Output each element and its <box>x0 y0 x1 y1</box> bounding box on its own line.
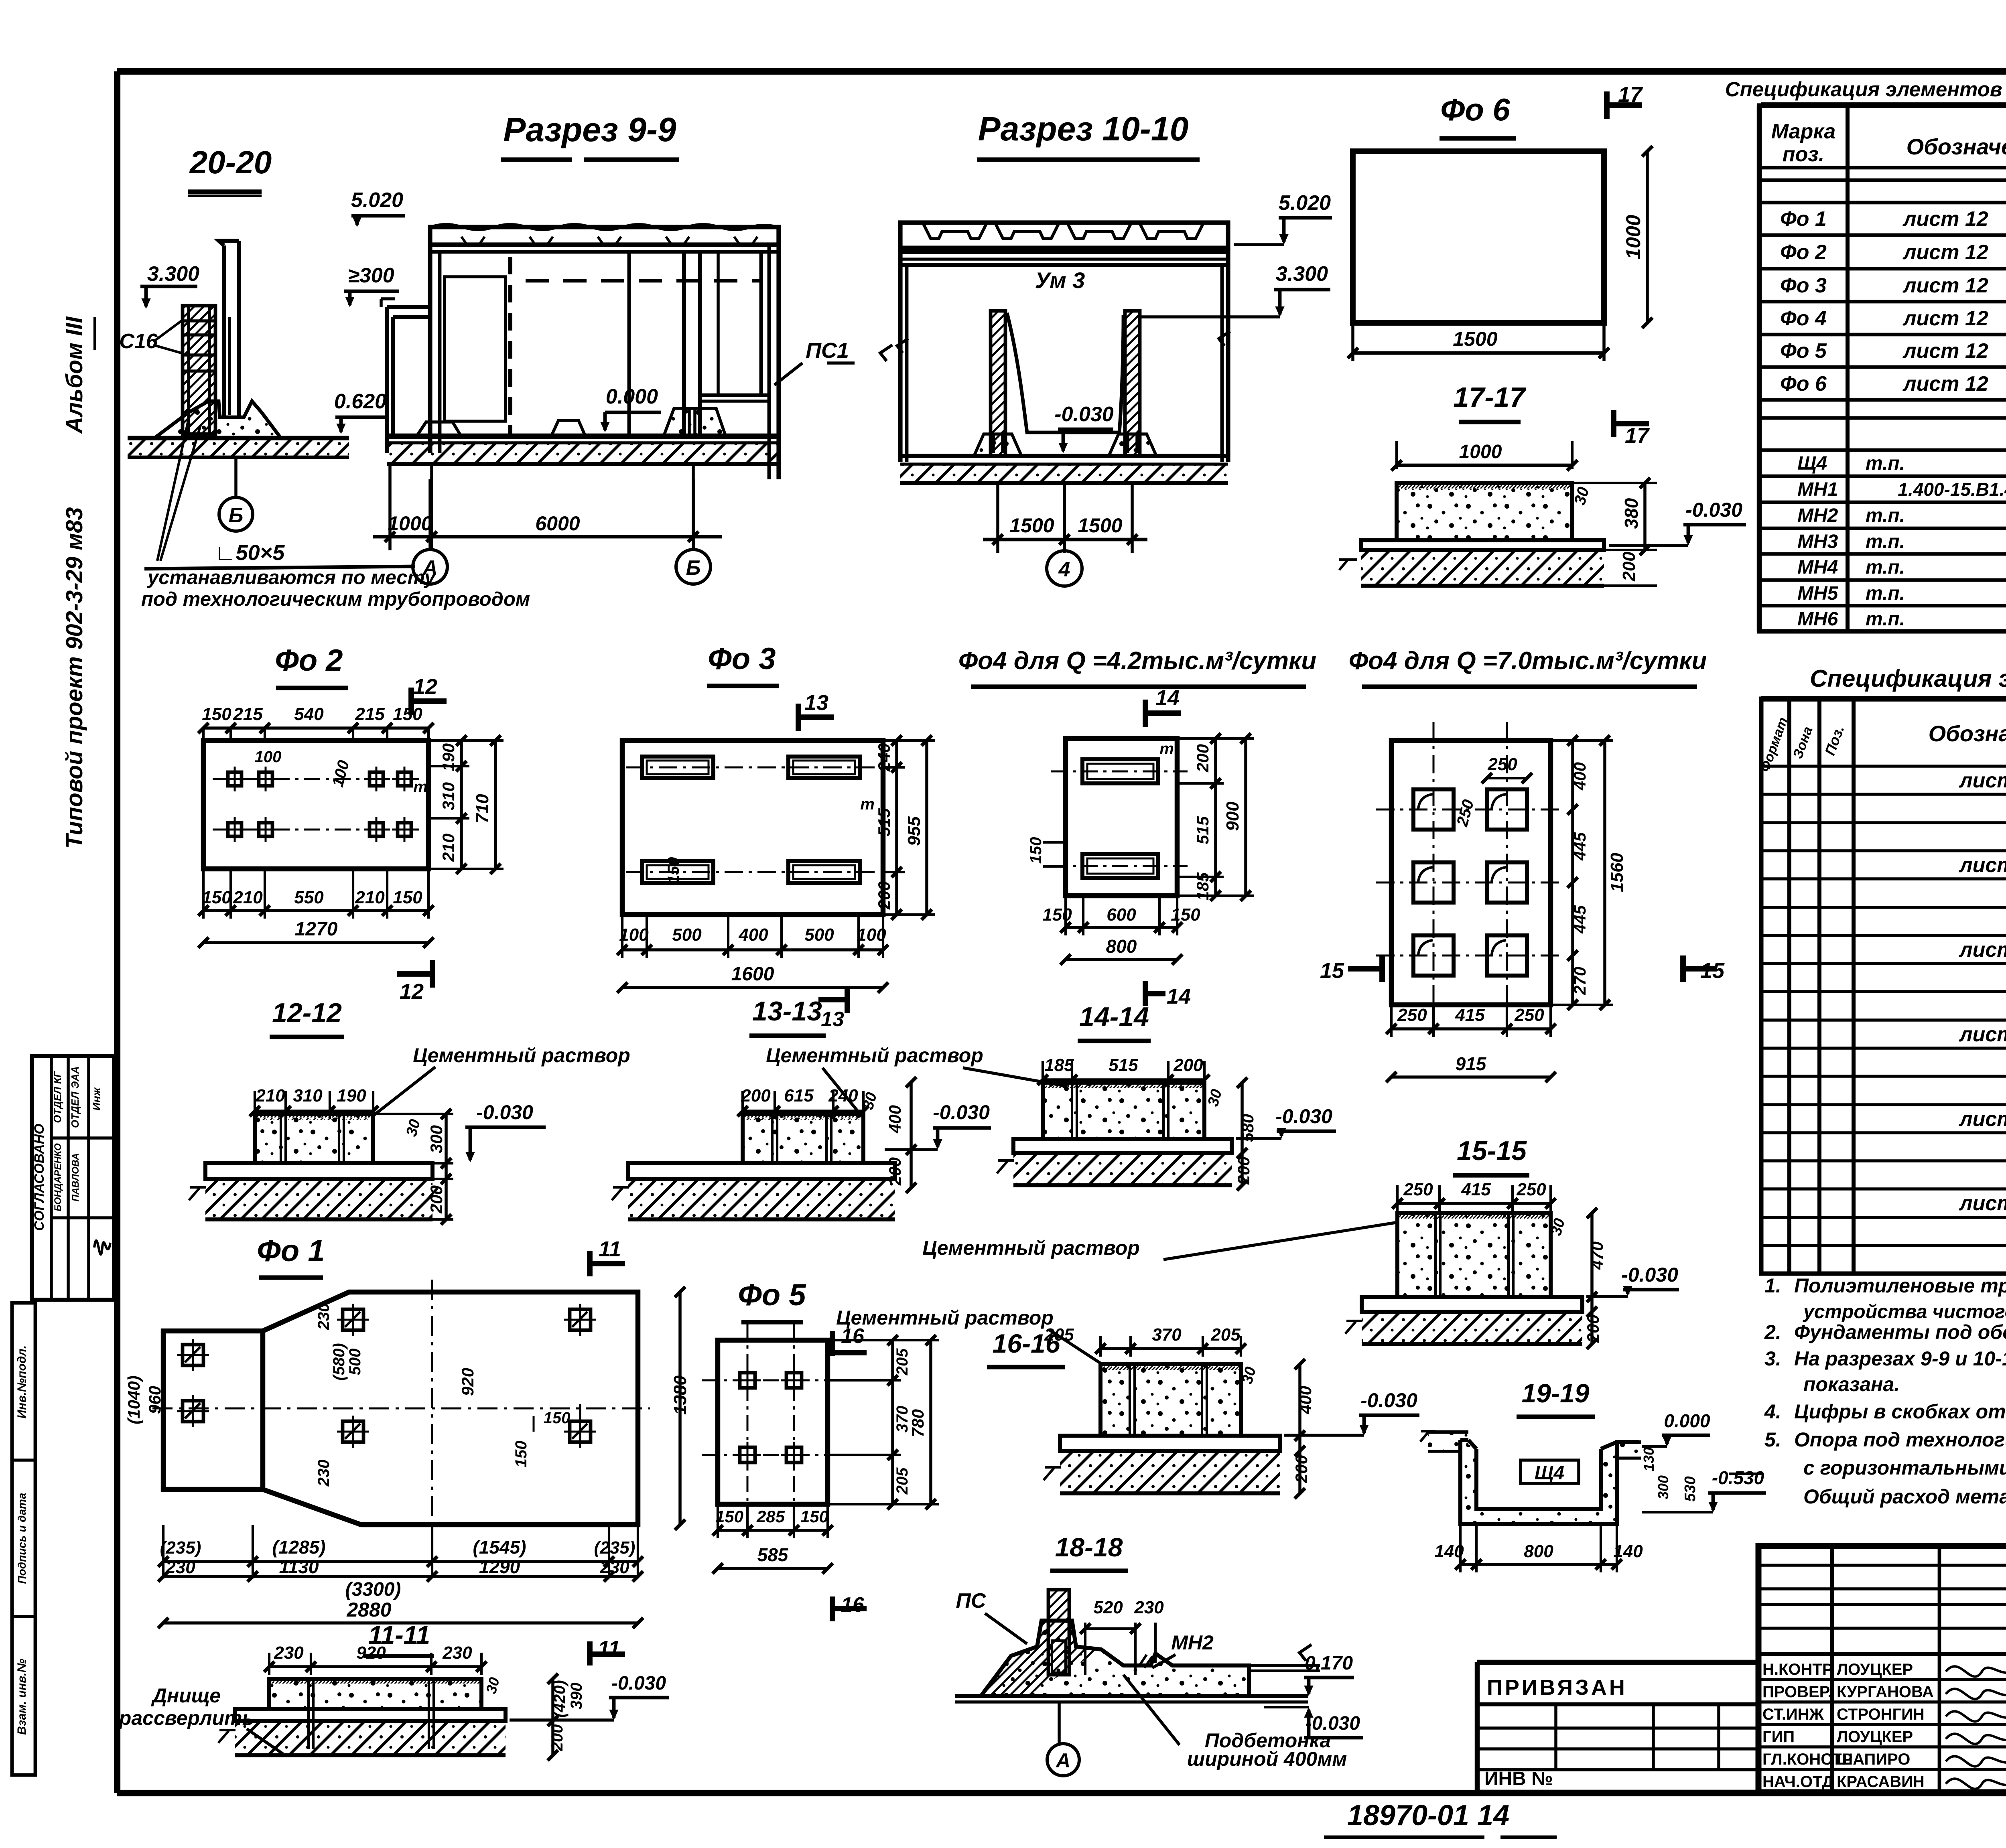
svg-text:190: 190 <box>337 1086 366 1106</box>
svg-text:т: т <box>860 795 875 813</box>
svg-text:960: 960 <box>145 1386 164 1414</box>
svg-text:-0.030: -0.030 <box>933 1101 990 1124</box>
svg-text:т.п.: т.п. <box>1866 609 1905 630</box>
svg-text:230: 230 <box>1134 1598 1164 1617</box>
svg-text:ОТДЕЛ ЭАА: ОТДЕЛ ЭАА <box>69 1066 81 1128</box>
svg-text:200: 200 <box>1173 1055 1203 1075</box>
svg-text:370: 370 <box>1152 1325 1182 1345</box>
svg-text:-0.030: -0.030 <box>1275 1105 1332 1128</box>
svg-text:550: 550 <box>294 888 324 907</box>
svg-text:150: 150 <box>715 1507 743 1526</box>
svg-text:230: 230 <box>315 1460 333 1487</box>
svg-text:13-13: 13-13 <box>752 996 822 1026</box>
svg-text:Инж: Инж <box>90 1087 103 1111</box>
svg-text:210: 210 <box>255 1086 285 1106</box>
svg-text:≥300: ≥300 <box>348 264 394 287</box>
svg-text:230: 230 <box>315 1303 333 1331</box>
svg-text:лист 12: лист 12 <box>1958 854 2006 877</box>
svg-text:210: 210 <box>355 888 385 907</box>
svg-text:Полиэтиленовые трубы заложить: Полиэтиленовые трубы заложить по верху м… <box>1794 1274 2006 1297</box>
svg-text:150: 150 <box>202 888 231 907</box>
svg-text:1270: 1270 <box>295 919 338 940</box>
svg-text:500: 500 <box>672 925 702 945</box>
svg-text:1130: 1130 <box>279 1556 319 1577</box>
svg-text:под технологическим трубопрово: под технологическим трубопроводом <box>141 588 530 610</box>
svg-text:210: 210 <box>233 888 263 907</box>
svg-text:600: 600 <box>1107 905 1136 925</box>
svg-text:285: 285 <box>756 1507 785 1526</box>
svg-text:с горизонтальными балками из: с горизонтальными балками из L50×5. <box>1803 1456 2006 1479</box>
svg-text:1600: 1600 <box>731 964 774 985</box>
svg-text:515: 515 <box>1109 1055 1138 1075</box>
svg-text:ПАВЛОВА: ПАВЛОВА <box>70 1153 81 1202</box>
svg-text:6000: 6000 <box>535 512 580 535</box>
svg-text:150: 150 <box>202 704 231 724</box>
svg-text:Общий расход металла для устро: Общий расход металла для устройства опор… <box>1803 1485 2006 1508</box>
svg-text:150: 150 <box>544 1409 571 1427</box>
svg-text:200: 200 <box>741 1086 771 1106</box>
svg-text:185: 185 <box>1044 1055 1074 1075</box>
svg-text:205: 205 <box>893 1348 911 1375</box>
svg-text:БОНДАРЕНКО: БОНДАРЕНКО <box>53 1143 63 1211</box>
svg-text:ПРОВЕР.: ПРОВЕР. <box>1762 1683 1832 1701</box>
svg-text:200: 200 <box>427 1185 446 1214</box>
svg-text:4.: 4. <box>1764 1400 1781 1423</box>
svg-text:поз.: поз. <box>1783 143 1825 166</box>
svg-text:На разрезах 9-9 и 10-10 утепля: На разрезах 9-9 и 10-10 утепляющая кирпи… <box>1794 1347 2006 1370</box>
svg-text:5.020: 5.020 <box>351 189 403 212</box>
svg-text:200: 200 <box>885 1157 904 1186</box>
svg-text:ПС1: ПС1 <box>806 339 849 363</box>
svg-text:Фо4 для Q =4.2тыс.м³/сутки: Фо4 для Q =4.2тыс.м³/сутки <box>958 647 1317 675</box>
svg-text:5.: 5. <box>1764 1428 1781 1451</box>
svg-text:Фо 1: Фо 1 <box>257 1234 325 1268</box>
svg-text:Фо4 для Q =7.0тыс.м³/сутки: Фо4 для Q =7.0тыс.м³/сутки <box>1349 647 1707 675</box>
svg-text:1290: 1290 <box>479 1556 520 1577</box>
svg-text:5.020: 5.020 <box>1279 191 1331 215</box>
svg-text:Щ4: Щ4 <box>1535 1463 1564 1484</box>
svg-text:0.000: 0.000 <box>606 385 658 408</box>
svg-text:Фо 4: Фо 4 <box>1780 307 1827 330</box>
svg-text:215: 215 <box>233 704 263 724</box>
svg-text:150: 150 <box>800 1507 828 1526</box>
svg-text:4: 4 <box>1058 558 1070 581</box>
svg-text:150: 150 <box>512 1441 530 1468</box>
svg-text:(3300): (3300) <box>345 1579 401 1600</box>
svg-text:МН4: МН4 <box>1797 557 1838 578</box>
svg-text:11: 11 <box>598 1637 620 1661</box>
svg-text:С16: С16 <box>119 330 158 353</box>
svg-text:ГИП: ГИП <box>1762 1728 1795 1746</box>
svg-text:показана.: показана. <box>1803 1373 1900 1396</box>
svg-text:400: 400 <box>1570 762 1589 791</box>
svg-text:1500: 1500 <box>1078 514 1122 537</box>
svg-text:390: 390 <box>568 1683 585 1710</box>
svg-text:ЛОУЦКЕР: ЛОУЦКЕР <box>1837 1728 1913 1746</box>
svg-text:Фо 6: Фо 6 <box>1440 92 1510 127</box>
svg-text:устройства чистого пола, высту: устройства чистого пола, выступающие над… <box>1803 1301 2006 1323</box>
svg-text:250: 250 <box>1397 1005 1427 1025</box>
svg-text:250: 250 <box>1514 1005 1544 1025</box>
svg-text:устанавливаются по месту: устанавливаются по месту <box>146 567 437 588</box>
svg-text:Цифры в скобках относятся к пр: Цифры в скобках относятся к производител… <box>1794 1400 2006 1423</box>
svg-text:лист 12: лист 12 <box>1902 207 1988 231</box>
svg-text:200: 200 <box>1193 744 1212 773</box>
svg-text:150: 150 <box>665 857 682 884</box>
svg-text:Б: Б <box>686 556 701 580</box>
svg-text:Б: Б <box>229 504 244 527</box>
svg-text:МН6: МН6 <box>1797 609 1838 630</box>
svg-text:1.400-15.В1.430-01: 1.400-15.В1.430-01 <box>1898 479 2006 500</box>
svg-text:КРАСАВИН: КРАСАВИН <box>1837 1773 1925 1791</box>
svg-text:1000: 1000 <box>1459 441 1502 463</box>
svg-text:915: 915 <box>1456 1053 1487 1074</box>
svg-text:400: 400 <box>738 925 768 945</box>
svg-text:лист 12: лист 12 <box>1958 1108 2006 1131</box>
svg-text:Фо 3: Фо 3 <box>708 642 776 676</box>
svg-text:Фо 5: Фо 5 <box>1780 339 1827 363</box>
svg-text:т.п.: т.п. <box>1866 453 1905 474</box>
svg-text:МН5: МН5 <box>1797 583 1839 604</box>
svg-text:Обозначение: Обозначение <box>1929 721 2006 746</box>
svg-text:Фо 1: Фо 1 <box>1780 207 1827 231</box>
svg-text:17: 17 <box>1618 83 1643 107</box>
svg-text:380: 380 <box>1621 498 1642 529</box>
svg-text:310: 310 <box>439 782 458 810</box>
svg-text:1000: 1000 <box>1622 215 1645 259</box>
svg-text:140: 140 <box>1434 1542 1464 1561</box>
svg-text:3.300: 3.300 <box>147 262 199 286</box>
svg-text:ШАПИРО: ШАПИРО <box>1837 1751 1910 1768</box>
svg-text:415: 415 <box>1461 1180 1491 1199</box>
svg-text:200: 200 <box>875 881 893 910</box>
svg-text:ПРИВЯЗАН: ПРИВЯЗАН <box>1487 1676 1627 1700</box>
svg-text:14: 14 <box>1155 686 1180 710</box>
svg-text:т: т <box>413 778 428 796</box>
svg-text:240: 240 <box>828 1086 858 1106</box>
svg-text:шириной 400мм: шириной 400мм <box>1187 1748 1347 1770</box>
svg-text:2.: 2. <box>1764 1321 1781 1343</box>
svg-text:лист 12: лист 12 <box>1902 372 1988 396</box>
svg-text:710: 710 <box>473 794 492 824</box>
svg-text:920: 920 <box>356 1643 386 1663</box>
svg-text:т.п.: т.п. <box>1866 531 1905 552</box>
svg-text:МН2: МН2 <box>1797 505 1838 526</box>
svg-text:900: 900 <box>1223 801 1243 831</box>
svg-text:14: 14 <box>1167 984 1191 1008</box>
svg-text:Щ4: Щ4 <box>1797 453 1827 474</box>
svg-text:230: 230 <box>442 1643 472 1663</box>
svg-text:т.п.: т.п. <box>1866 505 1905 526</box>
svg-text:14-14: 14-14 <box>1079 1002 1149 1032</box>
svg-text:19-19: 19-19 <box>1522 1378 1590 1408</box>
svg-text:ПС: ПС <box>956 1589 987 1613</box>
svg-text:300: 300 <box>427 1125 446 1153</box>
svg-text:Фо 2: Фо 2 <box>1780 241 1827 264</box>
svg-text:17: 17 <box>1625 424 1650 448</box>
svg-text:470: 470 <box>1588 1241 1606 1270</box>
svg-text:540: 540 <box>294 704 324 724</box>
svg-text:250: 250 <box>1516 1180 1546 1199</box>
svg-text:лист 12: лист 12 <box>1958 1023 2006 1046</box>
svg-text:16: 16 <box>841 1593 865 1617</box>
svg-text:-0.030: -0.030 <box>611 1673 666 1694</box>
svg-text:515: 515 <box>875 808 893 836</box>
svg-text:2880: 2880 <box>346 1598 391 1621</box>
svg-text:Цементный раствор: Цементный раствор <box>836 1306 1054 1329</box>
svg-text:300: 300 <box>1655 1475 1671 1499</box>
svg-text:А: А <box>422 556 438 580</box>
svg-text:Фундаменты под оборудование бе: Фундаменты под оборудование бетонировать… <box>1794 1321 2006 1343</box>
svg-text:лист 12: лист 12 <box>1902 274 1988 297</box>
svg-text:270: 270 <box>1570 967 1589 995</box>
svg-text:130: 130 <box>1641 1447 1657 1471</box>
svg-text:Разрез 10-10: Разрез 10-10 <box>978 110 1189 148</box>
svg-text:МН3: МН3 <box>1797 531 1838 552</box>
svg-text:т.п.: т.п. <box>1866 583 1905 604</box>
svg-text:17-17: 17-17 <box>1453 381 1526 413</box>
svg-text:-0.030: -0.030 <box>476 1101 533 1124</box>
svg-text:1500: 1500 <box>1009 514 1054 537</box>
svg-text:лист 12: лист 12 <box>1902 339 1988 363</box>
svg-text:(235): (235) <box>594 1538 636 1558</box>
svg-text:Альбом III: Альбом III <box>61 316 87 434</box>
svg-text:1.: 1. <box>1764 1274 1781 1297</box>
svg-text:445: 445 <box>1570 905 1589 934</box>
svg-text:(1040): (1040) <box>124 1375 143 1424</box>
svg-text:515: 515 <box>1193 816 1212 844</box>
svg-text:3.300: 3.300 <box>1276 262 1328 286</box>
svg-text:СОГЛАСОВАНО: СОГЛАСОВАНО <box>32 1124 47 1231</box>
svg-text:150: 150 <box>393 704 422 724</box>
svg-text:12-12: 12-12 <box>272 998 342 1028</box>
svg-text:Фо 3: Фо 3 <box>1780 274 1827 297</box>
svg-text:-0.030: -0.030 <box>1621 1264 1678 1286</box>
svg-text:Ум 3: Ум 3 <box>1035 268 1085 293</box>
svg-text:Фо 2: Фо 2 <box>275 643 343 678</box>
svg-text:500: 500 <box>804 925 834 945</box>
svg-text:СТ.ИНЖ: СТ.ИНЖ <box>1762 1706 1824 1723</box>
svg-text:0.170: 0.170 <box>1305 1653 1353 1674</box>
svg-text:т.п.: т.п. <box>1866 557 1905 578</box>
svg-text:12: 12 <box>413 675 437 699</box>
svg-text:МН2: МН2 <box>1171 1631 1214 1654</box>
svg-text:500: 500 <box>346 1349 364 1375</box>
svg-text:СТРОНГИН: СТРОНГИН <box>1837 1706 1925 1723</box>
svg-text:(1545): (1545) <box>473 1537 526 1558</box>
svg-text:18970-01 14: 18970-01 14 <box>1347 1799 1509 1832</box>
svg-text:13: 13 <box>804 691 828 715</box>
svg-text:205: 205 <box>1044 1325 1074 1345</box>
svg-text:НАЧ.ОТД: НАЧ.ОТД <box>1762 1773 1833 1791</box>
svg-text:0.620: 0.620 <box>334 390 386 413</box>
svg-text:лист 12: лист 12 <box>1958 938 2006 962</box>
svg-text:(580): (580) <box>330 1343 348 1380</box>
svg-text:250: 250 <box>1403 1180 1433 1199</box>
svg-text:рассверлить: рассверлить <box>118 1707 254 1729</box>
svg-text:780: 780 <box>908 1409 927 1437</box>
svg-text:800: 800 <box>1106 936 1137 957</box>
svg-text:А: А <box>1055 1749 1070 1772</box>
svg-text:15-15: 15-15 <box>1457 1136 1527 1166</box>
svg-text:Фо 5: Фо 5 <box>738 1278 806 1312</box>
svg-text:150: 150 <box>1027 837 1045 864</box>
svg-text:лист 12: лист 12 <box>1958 1192 2006 1215</box>
svg-text:230: 230 <box>274 1643 304 1663</box>
svg-text:310: 310 <box>293 1086 323 1106</box>
svg-text:200: 200 <box>1619 552 1639 582</box>
svg-text:520: 520 <box>1093 1598 1123 1617</box>
svg-text:3.: 3. <box>1764 1347 1781 1370</box>
svg-text:-0.530: -0.530 <box>1712 1467 1764 1488</box>
svg-text:150: 150 <box>1042 905 1072 925</box>
svg-text:Типовой проект 902-3-29 м83: Типовой проект 902-3-29 м83 <box>61 507 87 848</box>
svg-text:445: 445 <box>1570 832 1589 861</box>
svg-text:100: 100 <box>619 925 649 945</box>
svg-text:Днище: Днище <box>151 1684 221 1707</box>
svg-text:Опора под технологические труб: Опора под технологические трубопроводы в… <box>1794 1428 2006 1451</box>
svg-text:лист 12: лист 12 <box>1958 769 2006 792</box>
svg-text:210: 210 <box>439 834 458 862</box>
svg-text:лист 12: лист 12 <box>1902 241 1988 264</box>
svg-text:230: 230 <box>599 1558 629 1577</box>
svg-text:150: 150 <box>393 888 422 907</box>
svg-text:-0.030: -0.030 <box>1360 1389 1417 1412</box>
svg-text:Н.КОНТР: Н.КОНТР <box>1762 1661 1833 1678</box>
svg-text:Фо 6: Фо 6 <box>1780 372 1827 396</box>
svg-text:0.000: 0.000 <box>1664 1410 1710 1431</box>
svg-text:-0.030: -0.030 <box>1054 403 1114 426</box>
svg-text:1500: 1500 <box>1453 328 1497 350</box>
svg-text:Подпись и дата: Подпись и дата <box>16 1493 28 1584</box>
svg-text:20-20: 20-20 <box>189 144 272 180</box>
svg-text:т: т <box>1159 740 1174 758</box>
svg-text:ИНВ №: ИНВ № <box>1484 1768 1553 1789</box>
svg-text:лист 12: лист 12 <box>1902 307 1988 330</box>
svg-text:Взам. инв.№: Взам. инв.№ <box>15 1659 28 1735</box>
svg-text:585: 585 <box>757 1544 789 1565</box>
svg-text:18-18: 18-18 <box>1055 1532 1123 1562</box>
svg-text:11: 11 <box>599 1237 621 1261</box>
svg-text:Разрез 9-9: Разрез 9-9 <box>503 111 676 148</box>
svg-text:Цементный раствор: Цементный раствор <box>766 1044 983 1067</box>
svg-text:Обозначение: Обозначение <box>1907 134 2006 159</box>
svg-text:Спецификация элементов монолит: Спецификация элементов монолитной констр… <box>1810 665 2006 692</box>
svg-text:ЛОУЦКЕР: ЛОУЦКЕР <box>1837 1661 1913 1678</box>
svg-text:∟50×5: ∟50×5 <box>215 541 285 565</box>
svg-text:100: 100 <box>255 748 282 766</box>
svg-text:400: 400 <box>885 1105 904 1134</box>
svg-text:Марка: Марка <box>1771 120 1836 143</box>
svg-text:1560: 1560 <box>1607 853 1627 892</box>
svg-text:215: 215 <box>355 704 385 724</box>
svg-text:920: 920 <box>458 1368 477 1396</box>
svg-text:Цементный раствор: Цементный раствор <box>922 1237 1140 1259</box>
svg-text:230: 230 <box>165 1558 195 1577</box>
svg-text:100: 100 <box>857 925 886 945</box>
svg-text:Инв.№подл.: Инв.№подл. <box>15 1345 28 1419</box>
svg-text:1000: 1000 <box>388 512 432 535</box>
svg-text:955: 955 <box>904 816 924 846</box>
svg-text:МН1: МН1 <box>1797 479 1838 500</box>
svg-text:140: 140 <box>1613 1542 1643 1561</box>
svg-text:Спецификация элементов к сх: Спецификация элементов к схеме расположе… <box>1725 78 2006 101</box>
svg-text:615: 615 <box>784 1086 814 1106</box>
svg-text:12: 12 <box>400 980 424 1004</box>
svg-text:250: 250 <box>1487 755 1517 774</box>
svg-text:205: 205 <box>1210 1325 1241 1345</box>
svg-text:КУРГАНОВА: КУРГАНОВА <box>1837 1683 1934 1701</box>
svg-text:ОТДЕЛ КГ: ОТДЕЛ КГ <box>51 1071 63 1123</box>
svg-text:800: 800 <box>1524 1542 1553 1561</box>
svg-text:205: 205 <box>893 1467 911 1495</box>
svg-text:(1285): (1285) <box>272 1537 326 1558</box>
svg-text:415: 415 <box>1455 1005 1485 1025</box>
svg-text:15: 15 <box>1320 959 1344 983</box>
svg-text:Цементный раствор: Цементный раствор <box>413 1044 630 1067</box>
svg-text:530: 530 <box>1682 1476 1699 1501</box>
svg-text:-0.030: -0.030 <box>1685 499 1742 521</box>
svg-text:150: 150 <box>1171 905 1200 925</box>
svg-text:(235): (235) <box>160 1538 201 1558</box>
svg-text:13: 13 <box>821 1008 844 1031</box>
svg-text:200: 200 <box>548 1724 566 1752</box>
